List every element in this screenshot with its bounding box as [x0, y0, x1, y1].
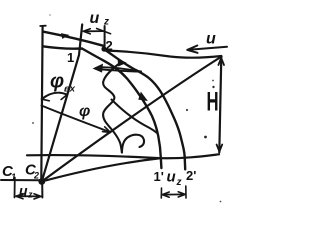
- H arrow down: [217, 145, 223, 152]
- svg-text:2': 2': [186, 168, 196, 183]
- svg-text:z: z: [103, 17, 109, 28]
- H arrow up: [218, 58, 224, 65]
- phi angle arc: [42, 106, 109, 132]
- ink speckle dots: [204, 136, 207, 139]
- phi arrowhead: [103, 127, 111, 133]
- lower-left u_z dimension arrow: [16, 194, 41, 199]
- svg-text:u: u: [90, 10, 100, 27]
- serif at top of left line: [40, 25, 46, 27]
- svg-text:u: u: [167, 169, 176, 186]
- svg-text:z: z: [176, 177, 182, 188]
- lower u_z dimension arrow: [161, 186, 186, 198]
- steep radial line from C2 to left tick: [42, 25, 82, 182]
- w1 inlet arrowhead: [94, 64, 103, 72]
- blade arc 2 lower sweep from junction to 2-prime: [105, 50, 186, 170]
- svg-text:φ: φ: [79, 103, 90, 120]
- diagonal radial from C2 to top-right corner: [42, 57, 222, 182]
- tick below hub (right end of lower-left u_z): [41, 183, 43, 198]
- flow arrowhead on arc1 lower: [139, 93, 147, 101]
- phi_vx left arrowhead: [42, 95, 49, 101]
- svg-text:вх: вх: [64, 84, 76, 95]
- svg-text:2: 2: [33, 171, 39, 181]
- phi_vx right arrowhead: [59, 92, 67, 99]
- streamline S-wave in channel: [103, 63, 122, 153]
- svg-text:H: H: [207, 86, 219, 116]
- svg-text:2: 2: [106, 38, 113, 53]
- svg-text:1': 1': [154, 169, 164, 184]
- svg-text:1: 1: [11, 172, 16, 182]
- flow arrowhead on arc1 mid: [118, 59, 126, 66]
- top u_z dimension arrow: [83, 29, 110, 34]
- C1-C2 short baseline at y=180: [1, 179, 40, 181]
- node C2 hub blob: [38, 178, 45, 185]
- flow velocity u arrow at top right: [189, 47, 227, 50]
- inner flow chord line: [112, 100, 158, 134]
- svg-text:z: z: [27, 190, 33, 200]
- junction blob at point 2: [101, 46, 106, 51]
- vortex curl hook: [122, 135, 144, 153]
- phi_vx angle arc: [42, 93, 67, 99]
- tick under C1: [14, 178, 16, 198]
- blade arc 2 (outer): [43, 32, 104, 46]
- H dimension vertical line: [219, 57, 221, 153]
- w1 inlet arrow double shaft: [98, 67, 141, 71]
- blade arc 1 (inner): [43, 46, 162, 168]
- right u_z tick at top: [104, 26, 106, 47]
- low radial from C2 to bottom-right corner: [42, 158, 159, 181]
- baseline row line y=155: [27, 154, 219, 158]
- svg-text:u: u: [206, 31, 216, 48]
- svg-text:φ: φ: [50, 71, 64, 93]
- svg-text:u: u: [19, 183, 28, 199]
- flow arrowhead on arc2 near start: [62, 34, 69, 39]
- top frame line to right corner: [105, 51, 222, 58]
- left vertical frame line: [41, 26, 42, 179]
- svg-text:1: 1: [67, 50, 74, 65]
